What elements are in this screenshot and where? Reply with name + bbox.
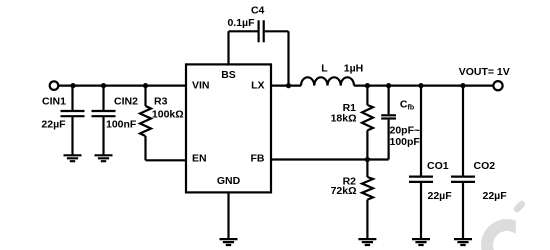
- svg-text:22µF: 22µF: [483, 190, 508, 202]
- svg-text:20pF~: 20pF~: [390, 124, 421, 136]
- capacitor CIN1: [61, 86, 85, 156]
- output terminal: [493, 81, 502, 90]
- node R1 junction: [365, 83, 370, 88]
- capacitor CO1: [409, 86, 433, 240]
- ground (R2): [358, 239, 376, 245]
- inductor L: [301, 77, 354, 85]
- input terminal: [50, 81, 59, 90]
- capacitor C4 (with BS wiring): [229, 20, 289, 85]
- node R3 junction: [143, 83, 148, 88]
- node CIN1 junction: [70, 83, 75, 88]
- svg-text:22µF: 22µF: [428, 190, 453, 202]
- wire output rail: [354, 84, 493, 86]
- resistor R2: [362, 160, 373, 240]
- svg-text:0.1µF: 0.1µF: [227, 17, 255, 29]
- resistor R3: [140, 86, 151, 161]
- wire GND pin: [227, 192, 229, 239]
- svg-text:22µF: 22µF: [41, 119, 66, 131]
- svg-text:100kΩ: 100kΩ: [152, 109, 184, 121]
- wire LX to inductor: [271, 84, 301, 86]
- svg-text:LX: LX: [251, 80, 264, 92]
- capacitor CO2: [451, 86, 475, 240]
- op-amp U1 (regulator IC box): [186, 64, 271, 192]
- ground (IC GND): [220, 239, 238, 245]
- svg-text:BS: BS: [221, 69, 236, 81]
- ground (CIN2): [95, 155, 113, 161]
- svg-text:100nF: 100nF: [106, 119, 137, 131]
- svg-text:CO2: CO2: [474, 160, 496, 172]
- svg-text:18kΩ: 18kΩ: [331, 112, 357, 124]
- wire R3 to EN: [146, 159, 187, 161]
- svg-text:C4: C4: [251, 4, 265, 16]
- svg-text:CO1: CO1: [427, 160, 449, 172]
- node C4/LX junction: [286, 83, 291, 88]
- svg-text:EN: EN: [192, 153, 207, 165]
- svg-text:R3: R3: [154, 96, 168, 108]
- node CO1 junction: [418, 83, 423, 88]
- svg-text:FB: FB: [251, 153, 265, 165]
- svg-text:CIN1: CIN1: [42, 96, 66, 108]
- watermark: [487, 204, 522, 250]
- svg-text:VOUT= 1V: VOUT= 1V: [459, 66, 510, 78]
- resistor R1: [362, 86, 373, 160]
- wire input rail: [58, 84, 186, 86]
- svg-text:1µH: 1µH: [344, 63, 363, 75]
- svg-text:72kΩ: 72kΩ: [331, 185, 357, 197]
- svg-text:100pF: 100pF: [390, 136, 421, 148]
- node Cfb junction: [386, 83, 391, 88]
- svg-text:VIN: VIN: [192, 80, 210, 92]
- capacitor CIN2: [92, 86, 116, 156]
- svg-text:GND: GND: [217, 175, 241, 187]
- node FB junction: [365, 157, 370, 162]
- capacitor Cfb: [381, 86, 396, 160]
- node CO2 junction: [460, 83, 465, 88]
- svg-text:L: L: [321, 63, 328, 75]
- ground (CO2): [454, 239, 472, 245]
- node CIN2 junction: [101, 83, 106, 88]
- wire FB: [271, 158, 389, 160]
- ground (CO1): [412, 239, 430, 245]
- svg-text:CIN2: CIN2: [114, 96, 138, 108]
- ground (CIN1): [64, 155, 82, 161]
